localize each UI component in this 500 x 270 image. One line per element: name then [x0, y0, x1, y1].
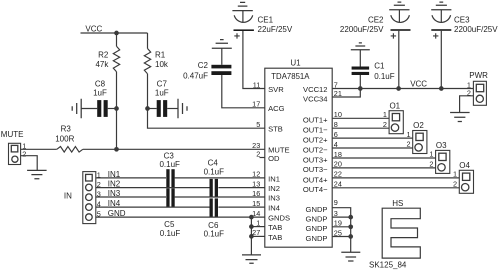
svg-text:CE3: CE3: [454, 15, 470, 24]
ground for C1: [351, 43, 370, 50]
svg-text:VCC12: VCC12: [303, 85, 327, 94]
wire IN2 right segment to pin 13: [218, 187, 264, 189]
svg-text:PWR: PWR: [469, 71, 488, 80]
wire IN2 left segment: [96, 187, 210, 189]
svg-text:1uF: 1uF: [93, 88, 107, 97]
wire OD stub: [260, 157, 265, 159]
wire GNDP pin 25: [332, 236, 351, 238]
label CE3 plus: [433, 33, 438, 38]
label CE2 plus: [391, 33, 396, 38]
wire C8 ground to plate: [81, 108, 97, 110]
svg-text:ACG: ACG: [268, 104, 285, 113]
svg-text:OUT2+: OUT2+: [303, 135, 328, 144]
svg-text:OUT1+: OUT1+: [303, 116, 328, 125]
wire VCC corner to R1: [147, 33, 149, 49]
svg-text:1: 1: [429, 150, 433, 159]
ground for CE3: [431, 2, 451, 10]
capacitor C4: [210, 179, 213, 198]
ground for CE2: [389, 2, 409, 10]
svg-text:IN: IN: [64, 192, 72, 201]
svg-text:C1: C1: [374, 61, 385, 70]
svg-text:14: 14: [252, 209, 260, 218]
wire R2 bottom to MUTE line: [116, 72, 118, 150]
svg-text:2: 2: [406, 140, 410, 149]
svg-text:9: 9: [334, 198, 338, 207]
svg-text:0.1uF: 0.1uF: [159, 160, 180, 169]
svg-text:2200uF/25V: 2200uF/25V: [340, 25, 384, 34]
node VCC/C1 junction: [358, 86, 363, 91]
svg-text:2: 2: [429, 160, 433, 169]
svg-text:VCC34: VCC34: [303, 94, 327, 103]
svg-text:TDA7851A: TDA7851A: [271, 72, 310, 81]
svg-text:2: 2: [22, 149, 26, 158]
node TAB1 junction: [249, 224, 254, 229]
heatsink HS: [382, 208, 420, 258]
svg-text:C5: C5: [164, 220, 175, 229]
wire C2 to ACG pin 17: [222, 75, 265, 108]
svg-text:SVR: SVR: [268, 85, 284, 94]
node GNDP pin19 junction: [348, 224, 353, 229]
svg-text:1uF: 1uF: [155, 88, 169, 97]
svg-text:MUTE: MUTE: [1, 130, 24, 139]
wire R1 bottom to STB corner: [148, 74, 265, 128]
svg-text:1: 1: [453, 170, 457, 179]
wire IN1 right segment to pin 12: [175, 177, 265, 179]
wire R1 column to C7 plate: [148, 108, 157, 110]
svg-text:GNDP: GNDP: [306, 234, 328, 243]
svg-text:1: 1: [256, 218, 260, 227]
wire PWR pin2 to ground: [460, 96, 474, 113]
connector PWR: [473, 81, 486, 105]
wire O1 pin1: [332, 117, 389, 119]
svg-text:13: 13: [252, 179, 260, 188]
capacitor C6: [210, 198, 213, 217]
wire GND to pin 14: [96, 216, 265, 218]
wire C1 to VCC rail: [359, 75, 361, 89]
svg-text:O2: O2: [413, 121, 424, 130]
wire TAB pin 27: [251, 235, 264, 237]
wire VCC34 pin 21: [332, 89, 360, 98]
svg-text:R3: R3: [61, 124, 72, 133]
wire O2 pin2: [332, 147, 413, 149]
svg-text:IN1: IN1: [268, 174, 280, 183]
node VCC/CE2 junction: [396, 86, 401, 91]
connector O4: [459, 170, 473, 193]
svg-text:12: 12: [252, 170, 260, 179]
svg-text:10k: 10k: [155, 60, 169, 69]
wire CE1 ground stem: [242, 11, 244, 23]
wire C2 ground stem: [221, 48, 223, 65]
wire CE1 to SVR pin 11: [243, 31, 265, 89]
svg-text:OUT4−: OUT4−: [303, 185, 328, 194]
node C7/R1 junction: [145, 106, 150, 111]
svg-text:OUT3−: OUT3−: [303, 165, 328, 174]
svg-text:0.1uF: 0.1uF: [374, 72, 395, 81]
svg-text:0.1uF: 0.1uF: [204, 168, 225, 177]
wire TAB pin 1: [251, 226, 264, 228]
wire VCC rail top-left: [81, 32, 148, 34]
svg-text:CE1: CE1: [258, 15, 274, 24]
svg-text:OUT2−: OUT2−: [303, 145, 328, 154]
capacitor C7: [157, 100, 161, 117]
svg-text:GNDP: GNDP: [306, 215, 328, 224]
node GNDS junction: [249, 215, 254, 220]
wire GNDP pin 9: [332, 208, 351, 253]
node GNDP pin25 junction: [348, 234, 353, 239]
wire MUTE pin1 to R3: [21, 148, 57, 150]
svg-text:TAB: TAB: [268, 223, 282, 232]
svg-text:VCC: VCC: [85, 24, 102, 33]
svg-text:2: 2: [383, 120, 387, 129]
resistor R3: [57, 147, 83, 153]
svg-text:16: 16: [252, 189, 260, 198]
resistor R1: [144, 49, 150, 74]
wire CE2 ground stem: [398, 10, 400, 23]
svg-text:R1: R1: [155, 50, 166, 59]
svg-text:IN3: IN3: [268, 193, 280, 202]
svg-text:VCC: VCC: [410, 79, 427, 88]
svg-text:C8: C8: [95, 79, 106, 88]
svg-text:IN2: IN2: [268, 184, 280, 193]
wire C1 ground stem: [359, 50, 361, 67]
node VCC/R2 junction: [114, 31, 119, 36]
svg-text:OUT4+: OUT4+: [303, 175, 328, 184]
svg-text:0.47uF: 0.47uF: [183, 71, 208, 80]
svg-text:C4: C4: [208, 159, 219, 168]
ground for C7: [178, 99, 187, 118]
svg-text:1: 1: [383, 110, 387, 119]
svg-text:2: 2: [453, 180, 457, 189]
wire CE3 ground stem: [440, 10, 442, 23]
connector O1: [389, 111, 403, 134]
svg-text:1: 1: [406, 130, 410, 139]
ground for C2: [212, 40, 232, 49]
capacitor CE3 curved plate: [432, 15, 451, 22]
wire R2 top stub: [116, 33, 118, 46]
svg-text:OD: OD: [268, 154, 280, 163]
wire CE3 to VCC rail: [440, 31, 442, 89]
svg-text:TAB: TAB: [268, 233, 282, 242]
ground PWR: [450, 113, 470, 122]
svg-text:GNDS: GNDS: [268, 214, 290, 223]
svg-text:R2: R2: [98, 50, 109, 59]
svg-text:OUT1−: OUT1−: [303, 126, 328, 135]
wire O1 pin2: [332, 127, 389, 129]
ground GNDS: [242, 255, 261, 263]
svg-text:15: 15: [252, 199, 260, 208]
connector O2: [413, 131, 427, 154]
svg-text:GNDP: GNDP: [306, 205, 328, 214]
wire O3 pin1: [332, 157, 435, 159]
svg-text:O3: O3: [436, 141, 447, 150]
wire IN1 left segment: [96, 177, 166, 179]
capacitor C3: [166, 169, 169, 188]
svg-text:0.1uF: 0.1uF: [204, 230, 225, 239]
wire MUTE pin2 down: [21, 156, 38, 171]
svg-text:GNDP: GNDP: [306, 224, 328, 233]
svg-text:CE2: CE2: [368, 15, 384, 24]
wire GNDP pin 19: [332, 226, 351, 228]
capacitor C8: [97, 100, 101, 117]
svg-text:47k: 47k: [95, 60, 109, 69]
connector MUTE: [9, 143, 21, 164]
node TAB27 junction: [249, 234, 254, 239]
node R2 column / MUTE line junction: [114, 147, 119, 152]
svg-text:SK125_84: SK125_84: [369, 261, 407, 270]
node C8/R2 junction: [114, 106, 119, 111]
svg-text:O4: O4: [459, 161, 470, 170]
capacitor C2: [211, 65, 231, 69]
wire CE2 to VCC rail: [398, 31, 400, 89]
ic U1 body: [265, 68, 332, 247]
wire GNDS column down: [250, 217, 252, 255]
capacitor CE3 flat plate: [431, 29, 451, 31]
svg-text:2200uF/25V: 2200uF/25V: [454, 25, 498, 34]
svg-text:OUT3+: OUT3+: [303, 155, 328, 164]
wire IN4 right segment to pin 15: [218, 206, 264, 208]
ground MUTE: [27, 170, 46, 178]
capacitor C5: [166, 188, 169, 207]
svg-text:HS: HS: [392, 199, 403, 208]
svg-text:O1: O1: [389, 101, 400, 110]
svg-text:IN4: IN4: [268, 204, 280, 213]
wire VCC12 pin 7: [332, 88, 360, 90]
wire O4 pin1: [332, 177, 459, 179]
wire O2 pin1: [332, 137, 413, 139]
wire IN3 left segment: [96, 196, 166, 198]
svg-text:100R: 100R: [55, 134, 74, 143]
wire C7 plate to ground: [167, 108, 178, 110]
wire GNDP pin 3: [332, 216, 351, 218]
wire VCC rail right: [360, 88, 473, 90]
svg-text:C2: C2: [198, 61, 209, 70]
wire IN4 left segment: [96, 206, 210, 208]
svg-text:27: 27: [252, 228, 260, 237]
svg-text:STB: STB: [268, 125, 283, 134]
svg-text:0.1uF: 0.1uF: [160, 229, 181, 238]
label CE1 plus: [234, 33, 239, 38]
ground for CE1: [232, 2, 252, 10]
wire R3 to IC MUTE pin: [83, 148, 265, 150]
capacitor CE2 curved plate: [391, 15, 410, 22]
capacitor CE1 curved plate: [234, 15, 253, 22]
svg-text:5: 5: [256, 120, 260, 129]
capacitor CE1 flat plate: [234, 29, 254, 31]
node VCC/CE3 junction: [439, 86, 444, 91]
wire O4 pin2: [332, 187, 459, 189]
capacitor CE2 flat plate: [391, 29, 411, 31]
svg-text:C7: C7: [157, 79, 168, 88]
capacitor C1: [352, 67, 370, 70]
svg-text:U1: U1: [290, 59, 301, 68]
svg-text:22uF/25V: 22uF/25V: [258, 25, 293, 34]
connector O3: [436, 150, 450, 173]
connector IN: [83, 172, 96, 224]
resistor R2: [113, 46, 119, 71]
node GNDP pin3 junction: [348, 215, 353, 220]
ground for C8: [72, 99, 81, 118]
ground GNDP: [341, 252, 360, 261]
wire C8 plate to R2 column: [108, 108, 117, 110]
wire IN3 right segment to pin 16: [175, 196, 265, 198]
wire O3 pin2: [332, 167, 435, 169]
